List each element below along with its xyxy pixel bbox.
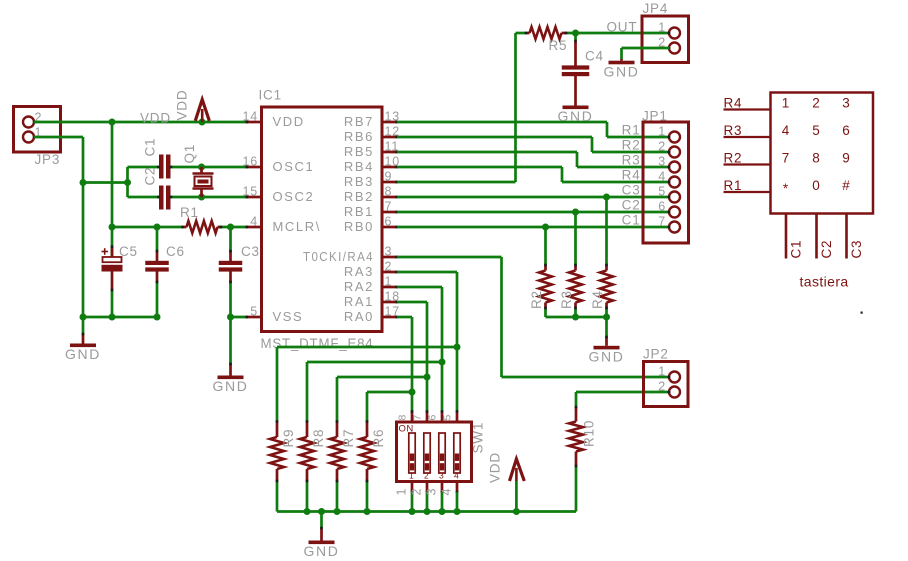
junction MCLR row at C5/VDD — [109, 224, 116, 231]
label C5 — [119, 244, 138, 259]
svg-text:R5: R5 — [549, 38, 568, 53]
label net R3 — [622, 153, 641, 168]
svg-text:R3: R3 — [724, 123, 743, 138]
svg-text:2: 2 — [658, 380, 666, 394]
capacitor C5 (electrolytic) — [102, 227, 123, 317]
label tastiera — [800, 274, 849, 290]
pin 17 (RA0) of IC1 — [344, 305, 400, 325]
capacitor C4 — [562, 33, 590, 106]
svg-text:1: 1 — [658, 21, 666, 35]
svg-text:6: 6 — [842, 123, 850, 138]
junction net C3 at R4 — [603, 194, 610, 201]
resistor R4 — [600, 197, 613, 317]
svg-text:GND: GND — [65, 346, 101, 362]
resistor R5 — [516, 27, 576, 39]
wire VDD drop to decoupling row — [111, 122, 114, 227]
svg-text:GND: GND — [589, 348, 625, 364]
ground symbol bottom — [304, 512, 340, 560]
svg-text:RB4: RB4 — [344, 159, 374, 174]
pin 13 (RB7) of IC1 — [344, 110, 400, 130]
svg-text:1: 1 — [782, 96, 790, 111]
svg-text:7: 7 — [412, 414, 424, 421]
wire RA4 to JP2 pin 1 — [397, 257, 670, 377]
pin 7 (RB1) of IC1 — [344, 200, 398, 220]
label net R1 — [622, 123, 641, 138]
pin 5 (VSS) of IC1 — [246, 305, 304, 325]
svg-text:R4: R4 — [622, 168, 641, 183]
svg-text:6: 6 — [427, 414, 439, 421]
svg-text:C2: C2 — [143, 167, 158, 186]
svg-text:1: 1 — [658, 365, 666, 379]
junction net C2 at R3 — [572, 209, 579, 216]
svg-text:3: 3 — [385, 245, 393, 259]
svg-text:3: 3 — [658, 155, 666, 169]
keypad row line R3 — [724, 123, 771, 138]
junction bottom rail — [364, 508, 371, 515]
capacitor C6 — [145, 227, 169, 317]
svg-text:VDD: VDD — [273, 114, 305, 129]
capacitor C1 — [128, 155, 248, 179]
label IC1 — [259, 88, 282, 103]
svg-text:R4: R4 — [590, 290, 605, 309]
junction bottom rail — [454, 508, 461, 515]
junction OSC2 at Q1 — [198, 194, 205, 201]
svg-text:SW1: SW1 — [471, 422, 486, 454]
value MST_DTMF_E84 — [261, 336, 374, 351]
svg-text:Q1: Q1 — [182, 144, 197, 164]
wire bottom ground rail — [277, 510, 576, 513]
wire RA2 to SW1 pin 6 — [397, 287, 442, 412]
svg-text:R2: R2 — [724, 151, 743, 166]
svg-text:3: 3 — [439, 471, 444, 481]
svg-text:OSC2: OSC2 — [273, 189, 315, 204]
pin 14 (VDD) of IC1 — [242, 110, 304, 130]
svg-text:4: 4 — [454, 471, 459, 481]
label R5 — [549, 38, 568, 53]
label VDD bottom (rotated) — [488, 452, 503, 483]
svg-text:6: 6 — [385, 215, 393, 229]
wire RA0 to SW1 pin 8 — [397, 317, 412, 412]
svg-text:C1: C1 — [622, 213, 641, 228]
label VDD (rotated) — [175, 90, 190, 121]
svg-text:8: 8 — [812, 151, 820, 166]
junction RA0 at R6 row — [409, 389, 416, 396]
label OUT — [607, 20, 638, 35]
svg-text:VDD: VDD — [140, 111, 171, 126]
stray ink dot — [861, 312, 863, 314]
wire R9 top — [277, 347, 457, 422]
svg-text:4: 4 — [782, 123, 790, 138]
crystal Q1 — [193, 167, 214, 197]
pin 11 (RB5) of IC1 — [344, 140, 399, 160]
connector JP4 — [642, 1, 689, 63]
svg-text:R7: R7 — [341, 429, 356, 448]
pin numbers SW1 top (8 7 6 5) — [397, 414, 454, 421]
svg-text:3: 3 — [842, 96, 850, 111]
label R3 — [559, 290, 574, 309]
wire RB7 to JP1 pin 1 (net R1) — [397, 122, 670, 137]
keypad digits — [782, 96, 851, 197]
resistor R8 — [300, 420, 314, 511]
svg-text:C2: C2 — [622, 198, 641, 213]
wire RB0 to JP1 pin 7 (net C1) — [397, 226, 670, 229]
svg-text:1: 1 — [409, 471, 414, 481]
label R9 — [281, 429, 296, 448]
resistor R10 — [569, 392, 583, 512]
svg-text:VDD: VDD — [175, 90, 190, 121]
pin 9 (RB3) of IC1 — [344, 170, 398, 190]
svg-text:OSC1: OSC1 — [273, 159, 315, 174]
svg-text:8: 8 — [397, 414, 409, 421]
wire RB4 to JP1 pin 4 (net R4) — [397, 167, 670, 182]
resistor R1 — [181, 221, 222, 233]
connector JP2 — [643, 347, 688, 407]
ground symbol left — [65, 317, 101, 362]
svg-text:OUT: OUT — [607, 20, 638, 35]
svg-text:RB5: RB5 — [344, 144, 374, 159]
label net C1 — [622, 213, 641, 228]
wire RA1 to SW1 pin 7 — [397, 302, 427, 412]
pin numbers SW1 bottom (1 2 3 4) — [395, 488, 454, 496]
junction RA2 at R8 row — [439, 359, 446, 366]
label R4 — [590, 290, 605, 309]
svg-text:#: # — [842, 178, 850, 193]
svg-text:R1: R1 — [180, 205, 199, 220]
label R6 — [371, 429, 386, 448]
ground symbol under C4 — [558, 106, 594, 125]
connector JP3 — [14, 107, 61, 168]
wire VSS to GND — [231, 317, 248, 364]
wire RB2 to JP1 pin 5 (net C3) — [397, 196, 670, 199]
label C5 plus sign — [102, 248, 109, 255]
svg-text:R8: R8 — [311, 429, 326, 448]
svg-text:9: 9 — [385, 170, 393, 184]
junction GND rail at C6 — [80, 314, 161, 321]
svg-text:GND: GND — [604, 63, 640, 79]
svg-text:VSS: VSS — [273, 309, 304, 324]
svg-text:JP4: JP4 — [643, 1, 669, 16]
svg-text:RB7: RB7 — [344, 114, 374, 129]
power VDD symbol bottom (arrow) — [510, 459, 525, 512]
svg-text:4: 4 — [658, 170, 666, 184]
label C1 — [143, 138, 158, 157]
svg-text:2: 2 — [812, 96, 820, 111]
label C6 — [166, 244, 185, 259]
svg-text:RB2: RB2 — [344, 189, 374, 204]
svg-text:R2: R2 — [529, 290, 544, 309]
label R10 — [582, 420, 597, 447]
junction MCLR row at C3 — [227, 224, 234, 231]
svg-text:GND: GND — [213, 378, 249, 394]
label net C2 — [622, 198, 641, 213]
svg-text:R4: R4 — [724, 96, 743, 111]
pin 2 (RA3) of IC1 — [344, 260, 398, 280]
wire JP2 pin 2 to R10 — [576, 391, 670, 394]
label R8 — [311, 429, 326, 448]
junction at R4 bottom — [603, 314, 610, 321]
pin 12 (RB6) of IC1 — [344, 125, 400, 145]
switch SW1 (DIP-4) — [397, 410, 472, 511]
svg-text:GND: GND — [304, 543, 340, 559]
keypad column lines C1 C2 C3 — [786, 214, 864, 259]
label C3 — [241, 244, 260, 259]
junction OUT node at C4 — [572, 30, 579, 37]
svg-text:RA0: RA0 — [344, 309, 374, 324]
svg-text:5: 5 — [250, 305, 258, 319]
ground symbol under R4 — [589, 336, 625, 365]
wire VDD rail: JP3 pin2 to IC pin14 — [34, 121, 248, 124]
svg-text:R6: R6 — [371, 429, 386, 448]
svg-text:C6: C6 — [166, 244, 185, 259]
svg-text:RB3: RB3 — [344, 174, 374, 189]
junction GND rail at C5 — [109, 314, 116, 321]
svg-text:JP3: JP3 — [35, 152, 61, 167]
svg-text:2: 2 — [385, 260, 393, 274]
svg-text:C1: C1 — [789, 240, 804, 259]
svg-text:1: 1 — [658, 125, 666, 139]
svg-text:5: 5 — [812, 123, 820, 138]
pin 1 (RA2) of IC1 — [344, 275, 398, 295]
keypad S1 (tastiera) body — [771, 93, 874, 214]
junction VDD at C5 column — [109, 119, 116, 126]
junction at C1/C2 common — [124, 179, 131, 186]
svg-text:5: 5 — [658, 185, 666, 199]
pin 6 (RB0) of IC1 — [344, 215, 398, 235]
svg-text:4: 4 — [440, 488, 454, 496]
ground symbol under C3 — [213, 363, 249, 394]
keypad row line R4 — [724, 96, 771, 111]
svg-text:1: 1 — [395, 488, 409, 496]
label R1 — [180, 205, 199, 220]
wire RA3 to SW1 pin 5 — [397, 272, 457, 412]
svg-text:5: 5 — [442, 414, 454, 421]
svg-text:R3: R3 — [559, 290, 574, 309]
wire GND to C1/C2 common — [83, 167, 128, 197]
svg-text:R2: R2 — [622, 138, 641, 153]
resistor R3 — [569, 212, 582, 317]
wire R6 top — [367, 392, 412, 422]
pin 16 (OSC1) of IC1 — [242, 155, 314, 175]
junction bottom rail — [513, 508, 520, 515]
svg-text:R3: R3 — [622, 153, 641, 168]
svg-text:RA3: RA3 — [344, 264, 374, 279]
wire OUT to JP4 pin 1 — [576, 32, 670, 35]
svg-text:R1: R1 — [724, 178, 743, 193]
resistor R7 — [330, 420, 344, 511]
wire MCLR row — [112, 226, 248, 229]
svg-text:8: 8 — [385, 185, 393, 199]
svg-text:C1: C1 — [143, 138, 158, 157]
junction GND at oscillator cap leg — [80, 179, 87, 186]
ground symbol at JP4 pin 2 — [604, 59, 640, 79]
junction bottom rail — [424, 508, 431, 515]
wire RB6 to JP1 pin 2 (net R2) — [397, 137, 670, 152]
svg-text:15: 15 — [242, 185, 258, 199]
svg-text:C5: C5 — [119, 244, 138, 259]
connector JP1 — [642, 109, 689, 244]
svg-text:R10: R10 — [582, 420, 597, 447]
pin 18 (RA1) of IC1 — [344, 290, 400, 310]
junction RA3 at R9 row — [454, 344, 461, 351]
svg-text:RA2: RA2 — [344, 279, 374, 294]
svg-text:RB0: RB0 — [344, 219, 374, 234]
label VDD (horizontal) — [140, 111, 171, 126]
junction RA1 at R7 row — [424, 374, 431, 381]
svg-text:C3: C3 — [241, 244, 260, 259]
label R2 — [529, 290, 544, 309]
wire R8 top — [307, 362, 442, 422]
capacitor C3 — [219, 227, 243, 317]
label net R4 — [622, 168, 641, 183]
wire R2 R3 R4 common to ground — [546, 317, 607, 337]
pin 4 (MCLR\) of IC1 — [246, 215, 321, 235]
svg-text:GND: GND — [558, 108, 594, 124]
junction bottom rail — [334, 508, 341, 515]
wire GND rail under C5 C6 — [83, 316, 157, 319]
label SW1 — [471, 422, 486, 454]
svg-text:JP1: JP1 — [642, 109, 668, 124]
junction MCLR row at C6 — [154, 224, 161, 231]
pin 10 (RB4) of IC1 — [344, 155, 400, 175]
svg-text:C3: C3 — [849, 240, 864, 259]
svg-text:VDD: VDD — [488, 452, 503, 483]
junction VSS at C3 — [227, 314, 234, 321]
svg-text:4: 4 — [250, 215, 258, 229]
svg-text:RB1: RB1 — [344, 204, 374, 219]
pin 15 (OSC2) of IC1 — [242, 185, 314, 205]
svg-text:*: * — [783, 181, 789, 196]
resistor R2 — [539, 227, 552, 317]
svg-text:RA1: RA1 — [344, 294, 374, 309]
svg-text:2: 2 — [410, 488, 424, 496]
label R7 — [341, 429, 356, 448]
keypad row line R2 — [724, 151, 771, 166]
svg-text:6: 6 — [658, 200, 666, 214]
svg-text:RB6: RB6 — [344, 129, 374, 144]
junction OSC1 at Q1 — [198, 164, 205, 171]
wire R7 top — [337, 377, 427, 422]
label net R2 — [622, 138, 641, 153]
junction at R3 bottom — [572, 314, 579, 321]
pin 8 (RB2) of IC1 — [344, 185, 398, 205]
label C4 — [585, 49, 604, 64]
junction bottom rail — [409, 508, 416, 515]
svg-text:R9: R9 — [281, 429, 296, 448]
svg-text:2: 2 — [658, 140, 666, 154]
pin 3 (T0CKI/RA4) of IC1 — [303, 245, 398, 265]
svg-text:7: 7 — [385, 200, 393, 214]
svg-text:tastiera: tastiera — [800, 274, 849, 290]
svg-text:MCLR\: MCLR\ — [273, 219, 321, 234]
junction net C1 at R2 — [542, 224, 549, 231]
svg-text:C2: C2 — [819, 240, 834, 259]
resistor R9 — [270, 420, 284, 511]
svg-text:9: 9 — [842, 151, 850, 166]
svg-text:2: 2 — [424, 471, 429, 481]
op-amp IC1 body (MST_DTMF_E84) — [262, 107, 383, 332]
svg-text:IC1: IC1 — [259, 88, 282, 103]
junction VDD at supply arrow — [199, 119, 206, 126]
svg-text:1: 1 — [385, 275, 393, 289]
svg-text:16: 16 — [242, 155, 258, 169]
svg-text:C3: C3 — [622, 183, 641, 198]
label C2 — [143, 167, 158, 186]
svg-text:T0CKI/RA4: T0CKI/RA4 — [303, 249, 374, 264]
junction bottom rail — [439, 508, 446, 515]
svg-text:14: 14 — [242, 110, 258, 124]
svg-text:JP2: JP2 — [643, 347, 669, 362]
wire RB3 to R5 (net OUT source) — [397, 33, 516, 182]
junction bottom rail — [318, 508, 325, 515]
svg-text:R1: R1 — [622, 123, 641, 138]
svg-text:C4: C4 — [585, 49, 604, 64]
resistor R6 — [360, 420, 374, 511]
label Q1 — [182, 144, 197, 164]
label net C3 — [622, 183, 641, 198]
junction bottom rail — [304, 508, 311, 515]
svg-text:0: 0 — [812, 178, 820, 193]
wire JP4 pin 2 to ground — [622, 48, 670, 59]
capacitor C2 — [128, 186, 248, 210]
svg-text:7: 7 — [658, 215, 666, 229]
keypad row line R1 — [724, 178, 771, 193]
wire RB5 to JP1 pin 3 (net R3) — [397, 152, 670, 167]
wire GND: JP3 pin1 down left side — [34, 137, 83, 317]
wire RB1 to JP1 pin 6 (net C2) — [397, 211, 670, 214]
svg-text:7: 7 — [782, 151, 790, 166]
power VDD symbol (arrow) — [195, 100, 209, 123]
svg-text:3: 3 — [425, 488, 439, 496]
